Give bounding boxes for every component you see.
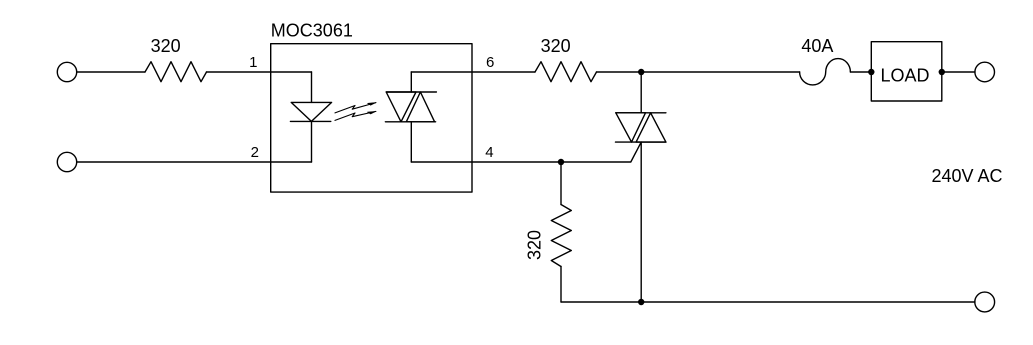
terminal T2 (input -) xyxy=(57,152,76,171)
svg-text:1: 1 xyxy=(249,54,257,71)
optocoupler U1 MOC3061 body xyxy=(271,44,472,192)
node dot B (gate junction) xyxy=(558,159,564,165)
svg-text:40A: 40A xyxy=(801,36,833,56)
photo-triac bottom bar xyxy=(385,121,435,123)
photo-triac left triangle xyxy=(386,92,416,122)
svg-text:4: 4 xyxy=(485,144,493,161)
LOAD box xyxy=(871,42,942,101)
svg-text:LOAD: LOAD xyxy=(880,66,929,86)
triac Q1 right triangle xyxy=(636,113,666,142)
photo-triac bottom lead (pin 4) xyxy=(410,122,412,162)
photo-triac right triangle xyxy=(406,92,434,122)
wire LOAD to T3 xyxy=(942,71,975,73)
resistor R3 (vertical) xyxy=(551,205,571,267)
wire gate node to R3 xyxy=(560,162,562,205)
svg-text:320: 320 xyxy=(541,36,571,56)
wire pin 4 to gate node xyxy=(411,161,561,163)
node dot LOAD right xyxy=(939,69,945,75)
triac Q1 gate lead xyxy=(561,142,641,162)
LED D1 triangle xyxy=(291,102,331,121)
terminal T1 (input +) xyxy=(57,62,76,81)
LED D1 cathode bar xyxy=(290,120,330,122)
LED D1 cathode lead xyxy=(311,121,313,162)
wire fuse to LOAD xyxy=(850,71,871,73)
wire pin 6 to R2 xyxy=(411,71,535,73)
light arrow lower xyxy=(335,111,376,120)
terminal T4 (neutral) xyxy=(975,292,995,312)
wire R2 to fuse xyxy=(597,71,800,73)
photo-triac top bar xyxy=(386,91,436,93)
node dot C (triac MT1 to rail) xyxy=(638,299,644,305)
wire T2 to LED cathode (pin 2) xyxy=(77,161,312,163)
triac Q1 left triangle xyxy=(616,113,646,142)
triac Q1 bottom bar xyxy=(616,141,666,143)
light arrow upper xyxy=(335,103,376,113)
node dot A (triac MT2 tap) xyxy=(638,69,644,75)
fuse F1 40A xyxy=(800,59,851,85)
wire R3 to bottom rail xyxy=(560,267,562,303)
svg-text:240V AC: 240V AC xyxy=(932,166,1003,186)
bottom rail xyxy=(561,301,975,303)
triac Q1 top bar xyxy=(616,112,666,114)
wire R1 to LED anode (pin 1) xyxy=(207,71,312,73)
node dot LOAD left xyxy=(868,69,874,75)
triac Q1 MT2 lead xyxy=(640,72,642,113)
svg-text:MOC3061: MOC3061 xyxy=(271,21,353,41)
svg-text:320: 320 xyxy=(525,230,545,260)
photo-triac top lead (pin 6) xyxy=(410,72,412,92)
svg-text:6: 6 xyxy=(486,54,494,71)
svg-text:320: 320 xyxy=(151,36,181,56)
svg-text:2: 2 xyxy=(251,144,259,161)
resistor R1 xyxy=(145,62,207,82)
resistor R2 xyxy=(535,62,597,82)
LED D1 anode lead xyxy=(311,72,313,102)
wire T1 to R1 xyxy=(77,71,145,73)
triac Q1 MT1 lead xyxy=(640,142,642,302)
terminal T3 (line) xyxy=(975,62,995,82)
